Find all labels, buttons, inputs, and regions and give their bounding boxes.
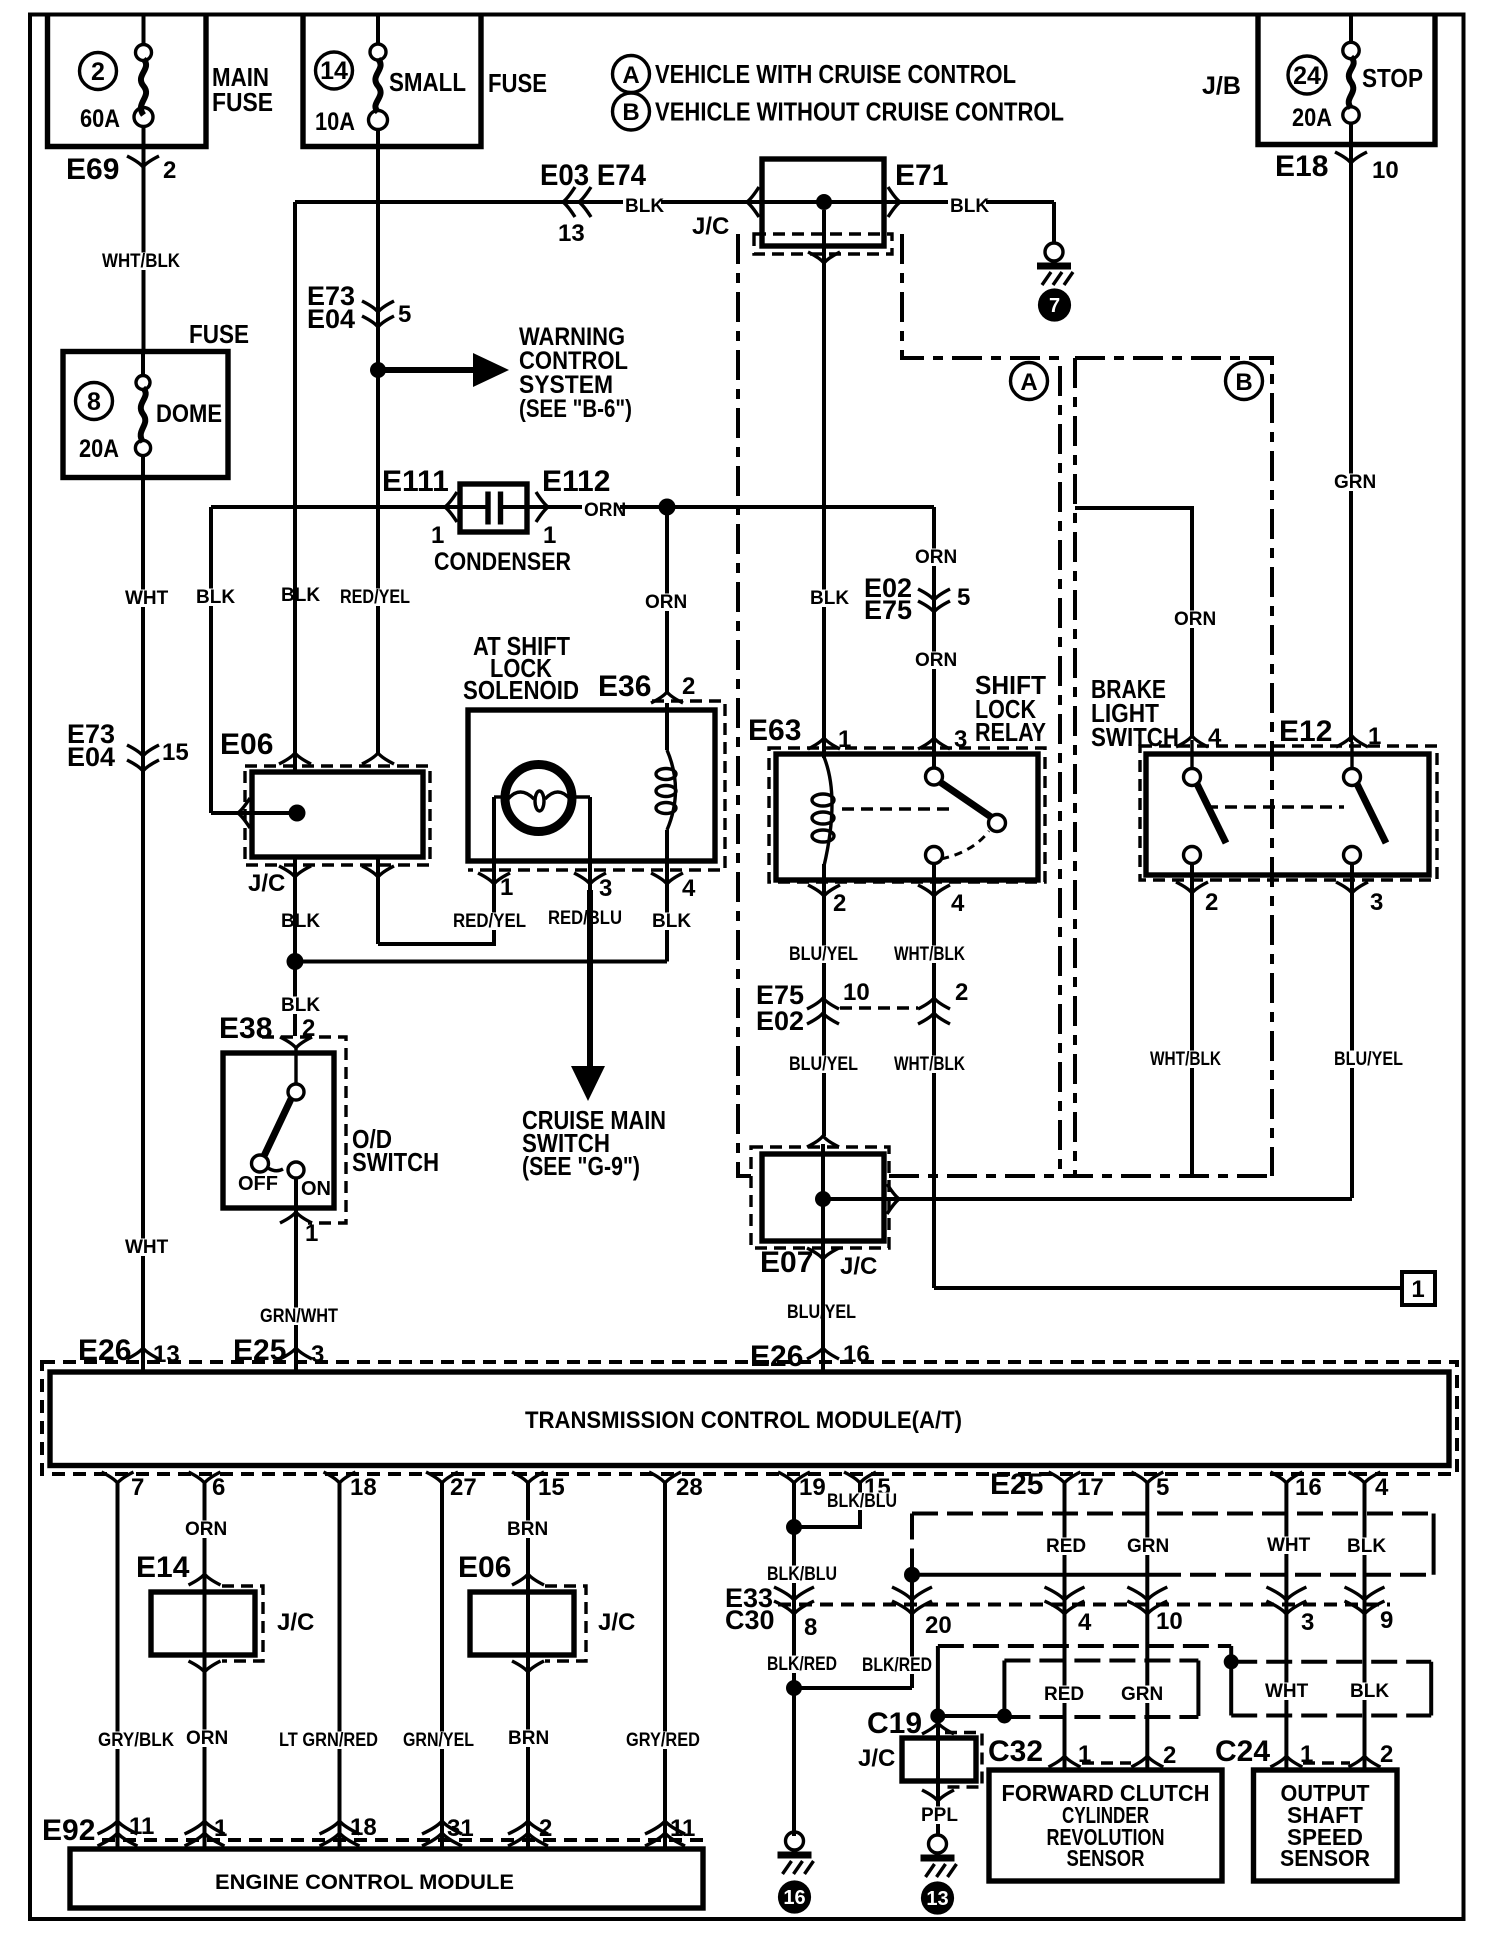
- svg-text:J/C: J/C: [692, 213, 729, 240]
- svg-text:15: 15: [538, 1474, 565, 1501]
- svg-text:J/C: J/C: [840, 1253, 877, 1280]
- svg-text:2: 2: [1163, 1742, 1176, 1769]
- svg-text:E04: E04: [307, 304, 355, 334]
- svg-text:20A: 20A: [1292, 104, 1332, 132]
- svg-text:J/C: J/C: [277, 1609, 314, 1636]
- svg-text:4: 4: [1375, 1474, 1389, 1501]
- svg-text:SENSOR: SENSOR: [1280, 1845, 1370, 1871]
- svg-text:B: B: [622, 99, 639, 126]
- svg-text:ORN: ORN: [645, 592, 687, 613]
- svg-text:7: 7: [1049, 295, 1060, 317]
- svg-text:4: 4: [1208, 724, 1222, 751]
- svg-text:BLK/RED: BLK/RED: [767, 1654, 837, 1675]
- svg-text:3: 3: [954, 726, 967, 753]
- svg-text:1: 1: [1411, 1276, 1424, 1303]
- svg-text:3: 3: [599, 875, 612, 902]
- svg-text:BLK/BLU: BLK/BLU: [767, 1564, 837, 1585]
- svg-text:BLK: BLK: [950, 196, 989, 217]
- svg-text:4: 4: [1078, 1609, 1092, 1636]
- svg-text:1: 1: [500, 874, 513, 901]
- svg-text:2: 2: [955, 979, 968, 1006]
- svg-text:2: 2: [163, 157, 176, 184]
- svg-text:5: 5: [398, 301, 411, 328]
- svg-text:PPL: PPL: [921, 1805, 958, 1826]
- svg-text:RED/YEL: RED/YEL: [453, 911, 526, 932]
- svg-text:GRN: GRN: [1334, 472, 1376, 493]
- svg-text:J/C: J/C: [858, 1745, 895, 1772]
- svg-text:E18: E18: [1275, 150, 1328, 183]
- svg-text:GRY/BLK: GRY/BLK: [98, 1730, 174, 1751]
- svg-text:ORN: ORN: [584, 500, 626, 521]
- svg-text:RED: RED: [1046, 1536, 1086, 1557]
- svg-text:3: 3: [1370, 889, 1383, 916]
- svg-text:BLK: BLK: [281, 911, 320, 932]
- svg-text:10: 10: [1156, 1608, 1183, 1635]
- svg-text:ORN: ORN: [185, 1519, 227, 1540]
- svg-text:SMALL: SMALL: [389, 67, 466, 97]
- svg-text:BRN: BRN: [507, 1519, 548, 1540]
- svg-text:15: 15: [162, 739, 189, 766]
- svg-text:TRANSMISSION CONTROL MODULE(A/: TRANSMISSION CONTROL MODULE(A/T): [525, 1407, 962, 1434]
- svg-text:BLK: BLK: [1350, 1681, 1389, 1702]
- svg-text:E69: E69: [66, 153, 119, 186]
- svg-text:2: 2: [1380, 1741, 1393, 1768]
- svg-text:11: 11: [670, 1815, 695, 1842]
- svg-text:19: 19: [799, 1474, 826, 1501]
- svg-text:BLK: BLK: [625, 196, 664, 217]
- svg-text:BLK: BLK: [281, 995, 320, 1016]
- svg-text:RED/YEL: RED/YEL: [340, 587, 410, 608]
- svg-text:BLK: BLK: [652, 911, 691, 932]
- svg-text:ENGINE CONTROL MODULE: ENGINE CONTROL MODULE: [215, 1871, 514, 1894]
- svg-text:E03 E74: E03 E74: [540, 159, 646, 192]
- svg-text:E92: E92: [42, 1814, 95, 1847]
- svg-text:ON: ON: [301, 1178, 331, 1200]
- svg-text:16: 16: [783, 1887, 805, 1909]
- svg-text:WHT/BLK: WHT/BLK: [894, 944, 965, 965]
- svg-text:14: 14: [320, 57, 348, 85]
- svg-text:GRN/YEL: GRN/YEL: [403, 1730, 474, 1751]
- svg-text:WHT: WHT: [1267, 1535, 1311, 1556]
- svg-text:GRY/RED: GRY/RED: [626, 1730, 700, 1751]
- svg-text:BLU/YEL: BLU/YEL: [789, 944, 858, 965]
- svg-text:31: 31: [447, 1815, 474, 1842]
- svg-text:24: 24: [1293, 62, 1321, 90]
- svg-text:9: 9: [1380, 1607, 1393, 1634]
- svg-text:WHT: WHT: [125, 588, 169, 609]
- svg-text:E12: E12: [1279, 715, 1332, 748]
- svg-text:BLK: BLK: [1347, 1536, 1386, 1557]
- svg-text:CONDENSER: CONDENSER: [434, 548, 571, 576]
- svg-text:GRN/WHT: GRN/WHT: [260, 1306, 338, 1327]
- svg-text:WHT: WHT: [125, 1237, 169, 1258]
- svg-text:E26: E26: [750, 1340, 803, 1373]
- svg-text:RED/BLU: RED/BLU: [548, 908, 622, 929]
- svg-text:ORN: ORN: [915, 650, 957, 671]
- svg-text:1: 1: [431, 522, 444, 549]
- svg-text:27: 27: [450, 1474, 477, 1501]
- svg-text:J/C: J/C: [598, 1609, 635, 1636]
- svg-text:BLK/BLU: BLK/BLU: [827, 1491, 897, 1512]
- svg-text:A: A: [622, 62, 639, 89]
- svg-text:WHT/BLK: WHT/BLK: [894, 1054, 965, 1075]
- svg-text:J/B: J/B: [1202, 72, 1241, 100]
- svg-text:BLU/YEL: BLU/YEL: [1334, 1049, 1403, 1070]
- svg-text:5: 5: [957, 584, 970, 611]
- svg-text:28: 28: [676, 1474, 703, 1501]
- svg-text:VEHICLE WITHOUT CRUISE CONTROL: VEHICLE WITHOUT CRUISE CONTROL: [655, 97, 1064, 127]
- svg-text:6: 6: [212, 1474, 225, 1501]
- svg-text:E04: E04: [67, 742, 115, 772]
- svg-text:8: 8: [804, 1614, 817, 1641]
- svg-text:E25: E25: [990, 1468, 1043, 1501]
- svg-text:C19: C19: [867, 1707, 922, 1740]
- svg-text:1: 1: [543, 522, 556, 549]
- svg-text:J/C: J/C: [248, 870, 285, 897]
- svg-text:BLK: BLK: [810, 588, 849, 609]
- svg-text:E02: E02: [756, 1006, 804, 1036]
- svg-text:FUSE: FUSE: [488, 68, 547, 98]
- svg-text:FUSE: FUSE: [212, 87, 273, 117]
- svg-text:WHT: WHT: [1265, 1681, 1309, 1702]
- svg-text:E111: E111: [382, 465, 449, 498]
- svg-text:(SEE "G-9"): (SEE "G-9"): [522, 1151, 640, 1181]
- svg-text:C32: C32: [988, 1735, 1043, 1768]
- svg-text:BLK/RED: BLK/RED: [862, 1655, 932, 1676]
- svg-text:10: 10: [1372, 157, 1399, 184]
- svg-text:FUSE: FUSE: [189, 319, 249, 349]
- svg-text:1: 1: [214, 1815, 227, 1842]
- svg-text:2: 2: [91, 58, 105, 86]
- svg-text:20A: 20A: [79, 435, 119, 463]
- svg-text:C24: C24: [1215, 1735, 1270, 1768]
- svg-text:WHT/BLK: WHT/BLK: [102, 251, 180, 272]
- svg-text:E112: E112: [542, 465, 610, 498]
- svg-text:16: 16: [1295, 1474, 1322, 1501]
- svg-text:10A: 10A: [315, 108, 355, 136]
- svg-text:4: 4: [951, 890, 965, 917]
- svg-text:A: A: [1020, 369, 1037, 396]
- svg-text:SENSOR: SENSOR: [1067, 1845, 1145, 1871]
- svg-text:E38: E38: [219, 1012, 272, 1045]
- svg-text:E06: E06: [458, 1551, 511, 1584]
- svg-text:E14: E14: [136, 1551, 190, 1584]
- svg-text:18: 18: [350, 1814, 377, 1841]
- svg-text:RED: RED: [1044, 1684, 1084, 1705]
- svg-text:SWITCH: SWITCH: [352, 1147, 439, 1177]
- svg-text:E07: E07: [760, 1246, 813, 1279]
- svg-text:2: 2: [539, 1815, 552, 1842]
- svg-text:1: 1: [1368, 723, 1381, 750]
- svg-text:20: 20: [925, 1612, 952, 1639]
- svg-text:7: 7: [131, 1474, 144, 1501]
- svg-text:C30: C30: [725, 1605, 775, 1635]
- svg-text:2: 2: [682, 673, 695, 700]
- svg-text:18: 18: [350, 1474, 377, 1501]
- svg-text:WHT/BLK: WHT/BLK: [1150, 1049, 1221, 1070]
- svg-text:2: 2: [833, 890, 846, 917]
- svg-text:60A: 60A: [80, 105, 120, 133]
- svg-text:5: 5: [1156, 1474, 1169, 1501]
- svg-text:E36: E36: [598, 670, 651, 703]
- svg-text:1: 1: [305, 1220, 318, 1247]
- svg-text:BLU/YEL: BLU/YEL: [789, 1054, 858, 1075]
- svg-text:RELAY: RELAY: [975, 717, 1046, 747]
- svg-text:GRN: GRN: [1127, 1536, 1169, 1557]
- svg-text:2: 2: [1205, 889, 1218, 916]
- svg-text:E75: E75: [864, 595, 912, 625]
- svg-text:BLK: BLK: [281, 585, 320, 606]
- svg-text:DOME: DOME: [156, 400, 222, 428]
- svg-text:1: 1: [838, 726, 851, 753]
- svg-text:3: 3: [1301, 1609, 1314, 1636]
- svg-text:BRN: BRN: [508, 1728, 549, 1749]
- svg-text:E71: E71: [895, 159, 948, 192]
- svg-text:VEHICLE WITH CRUISE CONTROL: VEHICLE WITH CRUISE CONTROL: [655, 59, 1016, 89]
- svg-text:ORN: ORN: [915, 547, 957, 568]
- svg-text:ORN: ORN: [1174, 609, 1216, 630]
- svg-text:OFF: OFF: [238, 1173, 278, 1195]
- svg-text:STOP: STOP: [1362, 63, 1423, 93]
- svg-text:GRN: GRN: [1121, 1684, 1163, 1705]
- svg-text:E06: E06: [220, 728, 273, 761]
- svg-text:SOLENOID: SOLENOID: [463, 675, 579, 705]
- svg-text:4: 4: [682, 875, 696, 902]
- svg-text:11: 11: [129, 1813, 154, 1840]
- svg-text:E63: E63: [748, 714, 801, 747]
- svg-text:B: B: [1235, 369, 1252, 396]
- svg-text:ORN: ORN: [186, 1728, 228, 1749]
- svg-text:LT GRN/RED: LT GRN/RED: [279, 1730, 378, 1751]
- svg-text:13: 13: [926, 1888, 948, 1910]
- svg-text:10: 10: [843, 979, 870, 1006]
- svg-text:(SEE "B-6"): (SEE "B-6"): [519, 395, 632, 423]
- svg-text:17: 17: [1077, 1474, 1104, 1501]
- svg-text:8: 8: [87, 388, 101, 416]
- svg-text:BLK: BLK: [196, 587, 235, 608]
- svg-text:13: 13: [558, 220, 585, 247]
